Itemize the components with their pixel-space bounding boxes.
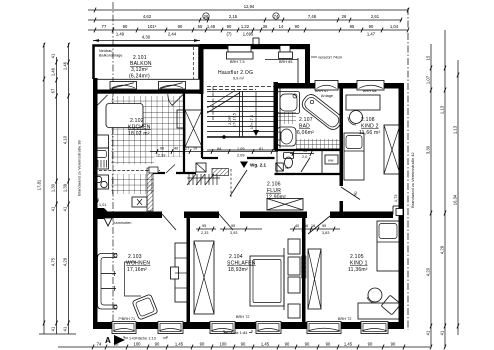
svg-text:81: 81 (259, 147, 263, 151)
svg-text:2,44: 2,44 (168, 32, 177, 37)
svg-text:11,36m²: 11,36m² (348, 267, 368, 273)
svg-text:90: 90 (160, 147, 164, 151)
svg-text:90: 90 (241, 342, 246, 347)
svg-text:2.105: 2.105 (350, 254, 364, 260)
svg-text:19: 19 (193, 147, 197, 151)
svg-text:1,45: 1,45 (344, 342, 353, 347)
svg-text:90: 90 (200, 342, 205, 347)
svg-text:95: 95 (322, 224, 326, 228)
svg-text:2.103: 2.103 (128, 254, 142, 260)
svg-text:36: 36 (263, 24, 268, 29)
svg-text:BRH 72: BRH 72 (236, 315, 250, 319)
svg-text:1,695: 1,695 (243, 32, 254, 37)
svg-text:3,30: 3,30 (426, 145, 431, 154)
svg-text:BRH 7,5: BRH 7,5 (230, 60, 245, 64)
svg-text:4,20: 4,20 (426, 267, 431, 276)
svg-text:90: 90 (285, 342, 290, 347)
svg-text:2,93: 2,93 (158, 154, 166, 158)
svg-text:1,04: 1,04 (390, 24, 399, 29)
svg-text:18,93m²: 18,93m² (228, 267, 248, 273)
svg-text:84: 84 (217, 147, 221, 151)
svg-text:95: 95 (350, 24, 355, 29)
svg-text:90: 90 (123, 24, 128, 29)
svg-text:101⁵: 101⁵ (148, 24, 157, 29)
svg-text:90: 90 (178, 24, 183, 29)
svg-text:41: 41 (63, 206, 68, 211)
svg-text:Balkonanlage: Balkonanlage (99, 54, 123, 58)
svg-text:90: 90 (391, 342, 396, 347)
svg-text:A: A (105, 336, 111, 345)
svg-text:2.108: 2.108 (361, 117, 375, 123)
svg-text:3,93: 3,93 (230, 231, 238, 235)
svg-text:Fläche 1:84: Fläche 1:84 (227, 331, 247, 335)
svg-text:4,62: 4,62 (143, 14, 152, 19)
svg-text:2.106: 2.106 (267, 182, 281, 188)
svg-text:Brandwand zu Vereinsstraße 38: Brandwand zu Vereinsstraße 38 (78, 140, 82, 195)
svg-text:1,13: 1,13 (440, 105, 445, 114)
svg-text:to BRH 6,00: to BRH 6,00 (131, 91, 152, 95)
svg-text:18,02 m²: 18,02 m² (128, 131, 150, 137)
svg-text:1,45: 1,45 (261, 342, 270, 347)
svg-text:WOHNEN: WOHNEN (126, 261, 150, 267)
svg-text:Kaminofen: Kaminofen (113, 221, 132, 225)
svg-text:26: 26 (204, 14, 209, 19)
svg-text:16,34: 16,34 (453, 194, 458, 205)
svg-text:4,29: 4,29 (440, 245, 445, 254)
svg-text:1,49: 1,49 (116, 32, 125, 37)
svg-text:100: 100 (134, 342, 142, 347)
svg-text:74: 74 (97, 342, 102, 347)
svg-text:2,33: 2,33 (201, 231, 209, 235)
svg-text:90: 90 (326, 342, 331, 347)
svg-text:90: 90 (227, 24, 232, 29)
svg-text:95: 95 (202, 224, 206, 228)
svg-text:2.102: 2.102 (130, 118, 144, 124)
svg-text:2,09: 2,09 (237, 154, 245, 158)
svg-text:18: 18 (311, 224, 315, 228)
svg-text:55: 55 (198, 24, 203, 29)
svg-text:2,0: 2,0 (302, 155, 307, 159)
svg-text:95: 95 (231, 224, 235, 228)
svg-text:6,06m²: 6,06m² (297, 130, 314, 136)
svg-text:67: 67 (51, 88, 56, 93)
svg-text:4,10: 4,10 (63, 135, 68, 144)
svg-text:1,01: 1,01 (99, 203, 107, 207)
svg-text:KÜCHEN: KÜCHEN (128, 124, 151, 131)
svg-text:17,81: 17,81 (37, 179, 42, 190)
svg-text:25: 25 (95, 198, 99, 202)
svg-text:40: 40 (295, 224, 299, 228)
svg-text:1,46: 1,46 (51, 67, 56, 76)
svg-text:74: 74 (274, 14, 279, 19)
svg-text:90: 90 (155, 342, 160, 347)
svg-text:90: 90 (305, 342, 310, 347)
svg-text:9,9 m²: 9,9 m² (233, 77, 245, 81)
svg-text:versetzt 74cm: versetzt 74cm (318, 56, 342, 60)
svg-text:1,45: 1,45 (175, 342, 184, 347)
svg-text:17×17,6: 17×17,6 (250, 115, 254, 129)
svg-text:2,15: 2,15 (229, 14, 238, 19)
svg-text:90: 90 (368, 342, 373, 347)
svg-text:7Ø: 7Ø (285, 166, 288, 170)
svg-text:2.104: 2.104 (229, 254, 243, 260)
svg-text:2,61: 2,61 (371, 14, 380, 19)
svg-text:BAD: BAD (299, 124, 310, 130)
svg-text:90: 90 (295, 24, 300, 29)
svg-text:Hausflur 2.OG: Hausflur 2.OG (218, 70, 253, 76)
svg-text:1,22: 1,22 (241, 24, 250, 29)
svg-text:1,09: 1,09 (237, 147, 245, 151)
svg-text:41: 41 (51, 53, 56, 58)
svg-text:Anlage: Anlage (321, 94, 333, 98)
svg-text:26: 26 (342, 14, 347, 19)
svg-text:41: 41 (63, 326, 68, 331)
svg-text:12,94: 12,94 (244, 4, 255, 9)
svg-text:1,47: 1,47 (367, 32, 376, 37)
svg-text:WM: WM (328, 159, 334, 163)
svg-text:(6,24m²): (6,24m²) (129, 74, 150, 80)
svg-text:BRH 85: BRH 85 (279, 60, 293, 64)
svg-text:Wg. 2.1: Wg. 2.1 (250, 163, 267, 168)
svg-text:100: 100 (220, 342, 228, 347)
svg-text:1,39: 1,39 (63, 183, 68, 192)
svg-text:SCHLAFEN: SCHLAFEN (227, 261, 256, 267)
svg-text:1,30: 1,30 (51, 183, 56, 192)
svg-text:1,13: 1,13 (453, 125, 458, 134)
svg-text:BRH 72: BRH 72 (338, 317, 352, 321)
svg-text:Neubau: Neubau (99, 49, 113, 53)
svg-text:41: 41 (440, 330, 445, 335)
svg-text:17,16m²: 17,16m² (127, 267, 147, 273)
svg-text:1,07: 1,07 (426, 75, 431, 84)
svg-text:41: 41 (426, 330, 431, 335)
svg-text:4,75: 4,75 (51, 257, 56, 266)
svg-text:1,73: 1,73 (394, 194, 398, 202)
svg-text:(7): (7) (226, 32, 232, 37)
svg-text:3,83: 3,83 (322, 231, 330, 235)
svg-text:41: 41 (51, 326, 56, 331)
svg-text:1,46: 1,46 (63, 61, 68, 70)
svg-text:Brandwand zu Vereinsstraße 42: Brandwand zu Vereinsstraße 42 (411, 152, 415, 207)
svg-text:36: 36 (304, 224, 308, 228)
svg-text:27: 27 (185, 147, 189, 151)
svg-text:2,05ᵐ: 2,05ᵐ (228, 115, 232, 125)
svg-text:1+0Fläche 1:13: 1+0Fläche 1:13 (129, 337, 156, 341)
svg-text:7ᵒBRH 71: 7ᵒBRH 71 (118, 317, 135, 321)
svg-text:41: 41 (51, 206, 56, 211)
svg-text:90: 90 (369, 24, 374, 29)
svg-text:1,49: 1,49 (207, 24, 216, 29)
svg-text:15: 15 (426, 55, 431, 60)
svg-text:77: 77 (102, 24, 107, 29)
svg-text:2.107: 2.107 (299, 117, 313, 123)
svg-text:12,90m²: 12,90m² (266, 195, 286, 201)
svg-text:14: 14 (279, 24, 284, 29)
svg-text:7,48: 7,48 (308, 14, 317, 19)
svg-text:17×17,5: 17×17,5 (233, 113, 237, 127)
svg-text:KIND 1: KIND 1 (350, 261, 368, 267)
svg-text:KIND 2: KIND 2 (361, 124, 379, 130)
svg-text:4,30: 4,30 (142, 35, 151, 40)
svg-text:40: 40 (174, 147, 178, 151)
svg-text:4,29: 4,29 (63, 257, 68, 266)
svg-text:3,12m²: 3,12m² (131, 67, 148, 73)
